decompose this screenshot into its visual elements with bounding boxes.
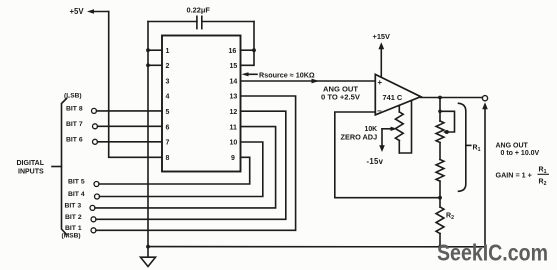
svg-text:BIT 7: BIT 7 xyxy=(66,121,83,128)
svg-text:7: 7 xyxy=(166,140,170,147)
resistor R1 fixed section xyxy=(436,160,444,182)
wire output terminal down to rail xyxy=(484,107,486,247)
node R2 bottom junction xyxy=(438,245,442,249)
svg-text:DIGITAL: DIGITAL xyxy=(17,160,45,167)
wire pin16 stub xyxy=(241,49,255,51)
wire BIT5 to pin 9 xyxy=(99,157,250,184)
wire BIT6 to pin 7 xyxy=(98,141,163,143)
terminal BIT1 xyxy=(91,228,96,233)
DIGITAL INPUTS label xyxy=(17,160,45,176)
svg-text:+15V: +15V xyxy=(373,32,391,41)
R1 bracket xyxy=(459,103,471,191)
svg-text:0.22μF: 0.22μF xyxy=(187,6,211,15)
svg-text:741 C: 741 C xyxy=(383,93,403,102)
+5V arrow xyxy=(87,9,109,13)
wire +5V down to pin 8 xyxy=(109,12,162,158)
Rsource label arrow xyxy=(242,72,258,76)
terminal BIT4 xyxy=(95,194,100,199)
wire BIT7 to pin 6 xyxy=(98,125,163,127)
svg-text:GAIN = 1 +: GAIN = 1 + xyxy=(496,170,532,179)
node pin2 junction xyxy=(146,63,150,67)
terminal output xyxy=(482,96,487,101)
svg-text:2: 2 xyxy=(166,63,170,70)
wire pin 14 to op-amp + input xyxy=(241,80,376,82)
svg-text:INPUTS: INPUTS xyxy=(18,169,44,176)
ground xyxy=(141,257,156,266)
wire op-amp inverting feedback loop xyxy=(335,112,440,198)
svg-text:ANG OUT: ANG OUT xyxy=(496,143,529,150)
node ground bus junction xyxy=(146,245,150,249)
svg-text:-15v: -15v xyxy=(367,157,384,166)
svg-text:16: 16 xyxy=(229,48,237,55)
capacitor C1 xyxy=(148,16,254,28)
svg-text:0 TO +2.5V: 0 TO +2.5V xyxy=(321,92,361,101)
svg-text:−: − xyxy=(377,107,382,116)
digital inputs brace xyxy=(52,99,67,235)
svg-text:SeekIC.com: SeekIC.com xyxy=(437,240,548,266)
svg-text:3: 3 xyxy=(166,78,170,85)
signal direction arrowhead xyxy=(312,79,320,84)
ANG OUT 0 to +10.0V label xyxy=(496,143,540,158)
svg-text:8: 8 xyxy=(166,155,170,162)
terminal BIT2 xyxy=(91,217,96,222)
terminal BIT5 xyxy=(94,182,99,187)
resistor R1 trimmer section xyxy=(436,121,444,143)
svg-text:12: 12 xyxy=(230,109,238,116)
wire output to R1 xyxy=(439,98,441,122)
wire pin2 stub xyxy=(148,64,162,66)
wire BIT1 to pin 13 xyxy=(96,96,296,230)
svg-text:BIT 6: BIT 6 xyxy=(66,136,83,143)
node output junction xyxy=(438,96,442,100)
potentiometer 10K zero adj xyxy=(395,106,403,153)
resistor R2 xyxy=(436,207,444,234)
wire R1 to feedback node xyxy=(439,181,441,207)
svg-text:+: + xyxy=(378,78,383,87)
svg-text:BIT 3: BIT 3 xyxy=(65,203,82,210)
svg-text:BIT 5: BIT 5 xyxy=(68,179,85,186)
wire BIT3 to pin 11 xyxy=(95,127,276,208)
svg-text:BIT 8: BIT 8 xyxy=(66,105,83,112)
trimmer tap loop xyxy=(438,110,454,135)
op-amp U2 741C xyxy=(375,74,421,115)
svg-text:5: 5 xyxy=(166,109,170,116)
GAIN formula label xyxy=(496,167,550,188)
+15V arrow xyxy=(378,42,384,78)
svg-text:6: 6 xyxy=(166,124,170,131)
terminal BIT3 xyxy=(90,205,95,210)
svg-text:ZERO ADJ: ZERO ADJ xyxy=(341,133,378,142)
wire bottom rail xyxy=(148,246,485,248)
node pin16 junction xyxy=(252,48,256,52)
terminal BIT6 xyxy=(93,139,98,144)
output arrow up xyxy=(482,102,488,109)
-15V arrow xyxy=(379,145,385,152)
terminal BIT7 xyxy=(93,124,98,129)
svg-text:11: 11 xyxy=(230,124,238,131)
wire op-amp output xyxy=(421,97,483,99)
svg-text:14: 14 xyxy=(230,78,238,85)
svg-text:(MSB): (MSB) xyxy=(62,232,81,239)
svg-text:BIT 4: BIT 4 xyxy=(68,191,85,198)
wire BIT4 to pin 10 xyxy=(100,142,263,197)
IC U1 DAC body xyxy=(162,36,241,172)
svg-text:+5V: +5V xyxy=(70,7,85,16)
wire BIT8 to pin 5 xyxy=(97,110,163,112)
svg-text:Rsource ≈ 10KΩ: Rsource ≈ 10KΩ xyxy=(259,71,315,80)
svg-text:BIT 2: BIT 2 xyxy=(65,214,82,221)
svg-text:15: 15 xyxy=(230,63,238,70)
svg-text:BIT 1: BIT 1 xyxy=(65,225,82,232)
wire R2 to bottom rail xyxy=(439,234,441,247)
svg-text:1: 1 xyxy=(166,48,170,55)
node pin1 junction xyxy=(146,48,150,52)
wire between R1 sections xyxy=(439,143,441,160)
svg-text:0 to + 10.0V: 0 to + 10.0V xyxy=(501,150,540,157)
wire pin1 stub xyxy=(148,49,162,51)
ANG OUT 0 TO +2.5V label xyxy=(321,84,361,101)
wire ground bus vertical (cap left to ground) xyxy=(147,22,149,258)
wire pot loop to op-amp xyxy=(399,101,411,154)
svg-text:9: 9 xyxy=(231,155,235,162)
terminal BIT8 xyxy=(92,108,97,113)
wire BIT2 to pin 12 xyxy=(96,111,286,219)
wire wiper to -15V xyxy=(381,129,383,147)
svg-text:(LSB): (LSB) xyxy=(64,92,82,99)
svg-text:4: 4 xyxy=(166,94,170,101)
wire cap right to pins 16,15 xyxy=(241,22,255,66)
node feedback junction xyxy=(438,196,442,200)
svg-text:10: 10 xyxy=(230,140,238,147)
pot wiper arrow xyxy=(382,127,397,131)
svg-text:13: 13 xyxy=(230,94,238,101)
